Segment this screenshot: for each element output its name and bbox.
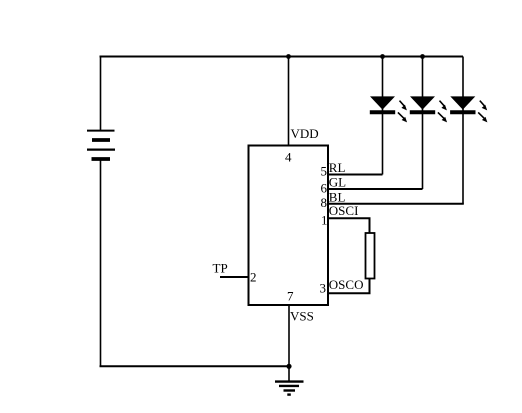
wire pin8 BL [328, 203, 464, 205]
wire VSS drop [288, 305, 290, 366]
svg-text:OSCI: OSCI [329, 203, 359, 218]
wire pin1 OSCI to resistor [328, 218, 370, 233]
op-amp U1 IC body [249, 146, 329, 306]
node junction LED2 on top rail [420, 54, 425, 59]
svg-text:5: 5 [321, 164, 328, 179]
wire top rail [100, 56, 464, 58]
node junction VSS on bottom rail [286, 364, 291, 369]
svg-text:7: 7 [287, 288, 294, 303]
svg-text:3: 3 [320, 281, 327, 296]
wire LED2 drop [422, 57, 424, 190]
wire bottom rail [100, 365, 290, 367]
LED D2 [410, 96, 447, 122]
wire LED1 drop [382, 57, 384, 175]
svg-text:2: 2 [250, 270, 257, 285]
svg-text:1: 1 [321, 213, 328, 228]
wire LED3 drop [462, 57, 464, 204]
wire pin5 RL [328, 174, 383, 176]
wire pin6 GL [328, 188, 423, 190]
wire left rail upper [100, 56, 102, 131]
LED D3 [450, 96, 487, 122]
svg-text:6: 6 [321, 181, 328, 196]
node junction VDD on top rail [286, 54, 291, 59]
svg-text:4: 4 [285, 150, 292, 165]
svg-text:VDD: VDD [291, 126, 319, 141]
resistor R1 [366, 233, 375, 279]
svg-text:VSS: VSS [290, 309, 314, 324]
ground [275, 366, 304, 395]
wire pin2 TP stub [220, 276, 248, 278]
svg-text:8: 8 [321, 195, 328, 210]
wire left rail lower [100, 161, 102, 367]
battery BT1 [87, 131, 115, 159]
wire VDD drop [288, 57, 290, 146]
wire resistor to OSCO [327, 279, 370, 294]
node junction LED1 on top rail [380, 54, 385, 59]
LED D1 [370, 96, 407, 122]
svg-text:TP: TP [213, 261, 228, 276]
svg-text:GL: GL [329, 175, 346, 190]
svg-text:RL: RL [329, 160, 346, 175]
svg-text:OSCO: OSCO [329, 277, 364, 292]
